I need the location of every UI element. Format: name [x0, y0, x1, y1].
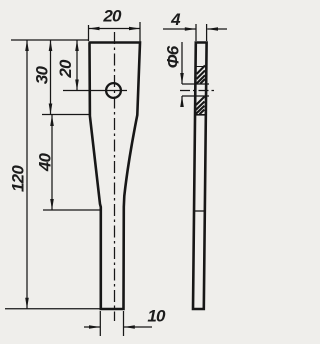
arrow top20 left	[89, 27, 100, 31]
arrow 120 bottom	[25, 298, 29, 309]
arrow 10 left (points right)	[89, 325, 100, 329]
extension line at taper start (y=114)	[42, 114, 89, 116]
side view hole bottom edge line	[182, 95, 209, 97]
phi6 dimension line	[181, 42, 183, 106]
side view hole top edge line	[182, 83, 209, 85]
front view vertical centerline	[114, 32, 116, 321]
arrow 30 bottom	[49, 104, 53, 115]
top 20 dimension line	[89, 28, 141, 30]
dimension line 120	[26, 40, 28, 309]
side view hole centerline	[180, 90, 215, 92]
arrow top20 right	[129, 27, 140, 31]
bottom 10 extension lines	[99, 311, 101, 336]
4 extension lines	[195, 24, 197, 41]
arrow phi6 top (points down)	[180, 73, 184, 84]
front view outline	[89, 43, 141, 310]
bottom 10 dimension line segments	[84, 326, 100, 328]
bottom extension line (y=308.5)	[5, 308, 100, 310]
arrow 40 top	[50, 115, 54, 126]
arrow 4 left (points right)	[185, 27, 196, 31]
paper background	[0, 0, 230, 344]
hatching band 1 (above hole)	[196, 66, 205, 84]
svg-text:4: 4	[170, 10, 181, 29]
dimension line 20 vertical	[76, 40, 78, 91]
dimension line 40	[51, 115, 53, 211]
arrow 30 top	[49, 40, 53, 51]
4 dimension line	[163, 28, 227, 30]
arrow 20v top	[75, 40, 79, 51]
svg-text:10: 10	[147, 307, 166, 326]
side view local-section boundary top	[196, 66, 206, 68]
hole circle	[106, 83, 121, 98]
svg-text:20: 20	[102, 7, 122, 26]
hole center horizontal line	[63, 90, 127, 92]
arrow phi6 bottom (points up)	[180, 96, 184, 107]
svg-text:20: 20	[56, 59, 75, 79]
svg-text:Φ6: Φ6	[164, 45, 183, 68]
svg-text:30: 30	[33, 66, 52, 85]
svg-text:40: 40	[36, 153, 55, 173]
hatching band 2 (below hole)	[196, 97, 205, 115]
side view taper-end edge line	[194, 210, 204, 212]
arrow 4 right (points left)	[207, 27, 218, 31]
arrow 10 right (points left)	[124, 325, 135, 329]
top extension line left of part	[11, 39, 89, 41]
top 20 extension lines	[88, 25, 90, 41]
arrow 40 bottom	[50, 199, 54, 210]
side view outline	[193, 43, 207, 310]
dimension line 30	[50, 40, 52, 115]
svg-text:120: 120	[9, 165, 28, 192]
arrow 20v bottom	[75, 80, 79, 91]
side view local-section boundary bottom	[195, 114, 205, 116]
extension line at taper end (y=210)	[43, 209, 101, 211]
arrow 120 top	[25, 40, 29, 51]
